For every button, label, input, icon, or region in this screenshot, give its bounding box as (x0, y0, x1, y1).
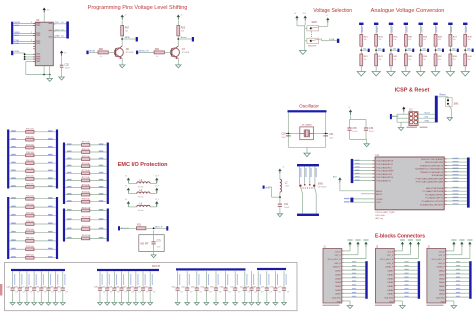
svg-text:R23: R23 (181, 28, 186, 30)
svg-text:SW3: SW3 (318, 184, 324, 186)
svg-text:VPP_U: VPP_U (387, 255, 394, 257)
svg-text:MISO: MISO (15, 32, 21, 34)
svg-text:100nF: 100nF (352, 131, 358, 133)
svg-text:3V3A: 3V3A (329, 38, 335, 41)
svg-text:1nF: 1nF (51, 292, 54, 294)
svg-text:1nF: 1nF (247, 292, 250, 294)
svg-text:AN10/CMP/DATA: AN10/CMP/DATA (426, 187, 444, 190)
svg-text:R18 10k: R18 10k (26, 152, 35, 154)
svg-text:1nF: 1nF (22, 292, 25, 294)
svg-text:R75 10k: R75 10k (26, 196, 35, 198)
svg-text:Ferrite: Ferrite (138, 186, 143, 189)
svg-text:U1: U1 (376, 153, 380, 157)
svg-text:1nF: 1nF (124, 292, 127, 294)
svg-text:GND: GND (425, 121, 430, 123)
svg-text:10k: 10k (423, 39, 426, 41)
svg-text:1nF: 1nF (269, 292, 272, 294)
svg-text:DATA1: DATA1 (387, 270, 393, 273)
svg-text:R15 10k: R15 10k (26, 129, 35, 131)
svg-text:100nF: 100nF (369, 131, 375, 133)
svg-text:5mH: 5mH (285, 186, 290, 188)
svg-text:10k: 10k (393, 59, 396, 61)
svg-text:PGD2/AN0/CN2: PGD2/AN0/CN2 (376, 173, 393, 176)
svg-text:RST: RST (15, 35, 20, 37)
svg-text:SW1: SW1 (454, 104, 460, 106)
svg-text:PGA/EX/C1/MPT/AGTS: PGA/EX/C1/MPT/AGTS (420, 164, 444, 167)
svg-text:Analogue Voltage Conversion: Analogue Voltage Conversion (371, 8, 445, 14)
svg-text:PGD1/AN2/R16: PGD1/AN2/R16 (376, 166, 392, 169)
svg-text:R70 10k: R70 10k (82, 163, 91, 165)
svg-text:GND_E: GND_E (387, 263, 394, 265)
svg-text:10k: 10k (453, 39, 456, 41)
svg-text:2: 2 (31, 22, 32, 24)
svg-text:RG0/A/LAN: RG0/A/LAN (432, 174, 444, 177)
svg-text:AN9/2: AN9/2 (376, 193, 383, 196)
svg-text:DSO+V06: DSO+V06 (376, 215, 386, 217)
svg-text:E-blocks Connectors: E-blocks Connectors (375, 234, 425, 240)
svg-text:1nF: 1nF (261, 292, 264, 294)
svg-text:GND_E: GND_E (334, 263, 341, 265)
svg-text:R74 10k: R74 10k (82, 191, 91, 193)
svg-text:DIP-SW02: DIP-SW02 (318, 187, 327, 189)
svg-text:VPP_U: VPP_U (438, 255, 445, 257)
svg-text:DATA3: DATA3 (439, 277, 445, 280)
svg-text:PGC1/AN3/VREF: PGC1/AN3/VREF (376, 170, 394, 173)
svg-text:10k: 10k (364, 39, 367, 41)
svg-text:1.8: 1.8 (61, 36, 64, 38)
svg-text:1nF: 1nF (44, 292, 47, 294)
svg-text:PC2/AN4/CMP/T2: PC2/AN4/CMP/T2 (425, 197, 444, 200)
svg-text:Reset: Reset (440, 94, 446, 97)
svg-text:PC5/AN3/SSL1/ROMT2: PC5/AN3/SSL1/ROMT2 (420, 203, 444, 206)
svg-text:DATA7: DATA7 (439, 293, 445, 296)
svg-text:DATA0_F: DATA0_F (333, 266, 342, 269)
svg-text:X3 10MHz: X3 10MHz (302, 125, 312, 127)
svg-text:1k: 1k (100, 56, 102, 58)
svg-text:C36: C36 (369, 128, 374, 130)
svg-text:DATA2: DATA2 (439, 273, 445, 276)
svg-text:R73 10k: R73 10k (82, 184, 91, 186)
svg-text:10k: 10k (438, 59, 441, 61)
svg-text:R71 10k: R71 10k (82, 170, 91, 172)
svg-text:1.8: 1.8 (61, 29, 64, 31)
svg-text:1nF: 1nF (138, 292, 141, 294)
svg-text:10k: 10k (438, 39, 441, 41)
svg-text:C31: C31 (329, 134, 334, 136)
svg-text:NO FIT: NO FIT (141, 243, 150, 246)
svg-text:ADC_IN: ADC_IN (121, 227, 129, 230)
svg-text:10k: 10k (364, 59, 367, 61)
svg-text:R22 10k: R22 10k (26, 176, 35, 178)
svg-text:1nF: 1nF (30, 292, 33, 294)
svg-text:NO FIT: NO FIT (152, 265, 161, 268)
svg-text:AN8/0: AN8/0 (376, 190, 383, 193)
svg-text:1nF: 1nF (238, 292, 241, 294)
svg-text:R17 10k: R17 10k (26, 144, 35, 146)
svg-text:1nF: 1nF (58, 292, 61, 294)
svg-text:R101 10k: R101 10k (82, 217, 92, 219)
svg-text:GND: GND (389, 301, 394, 303)
svg-text:R67: R67 (125, 28, 130, 30)
svg-text:10k: 10k (379, 39, 382, 41)
svg-text:PGB7/UA3/CAPA1/MPOA/R: PGB7/UA3/CAPA1/MPOA/R (416, 177, 444, 180)
svg-text:10k: 10k (181, 31, 184, 33)
svg-text:10k: 10k (468, 39, 471, 41)
svg-text:DATA7: DATA7 (335, 293, 341, 296)
svg-text:1nF: 1nF (146, 292, 149, 294)
svg-text:GND_E: GND_E (438, 263, 445, 265)
svg-text:MPB: MPB (125, 37, 130, 39)
svg-text:DATA6: DATA6 (335, 289, 341, 292)
svg-text:DATA1: DATA1 (335, 270, 341, 273)
svg-text:ACC+ny: ACC+ny (376, 217, 384, 220)
svg-text:PC4/AN5/SCL/PORT3: PC4/AN5/SCL/PORT3 (421, 200, 444, 203)
svg-text:MOSI: MOSI (15, 22, 21, 24)
svg-text:DATA0_F: DATA0_F (385, 266, 394, 269)
svg-text:PC1/AA2/CMP/M1: PC1/AA2/CMP/M1 (425, 193, 444, 196)
svg-text:PGD4/AN6/OC: PGD4/AN6/OC (376, 180, 391, 183)
svg-text:C41: C41 (284, 204, 289, 206)
svg-text:PG7T/UA1/CAPA1/MPOA/R: PG7T/UA1/CAPA1/MPOA/R (416, 181, 444, 184)
svg-text:1nF: 1nF (228, 292, 231, 294)
svg-text:PGC2/AN1/RP14: PGC2/AN1/RP14 (376, 176, 394, 179)
svg-text:ADC_F: ADC_F (155, 225, 163, 228)
svg-text:TMA/SDO/CAPM/AGT4: TMA/SDO/CAPM/AGT4 (420, 171, 444, 174)
svg-text:1nF: 1nF (15, 292, 18, 294)
svg-text:PB0/CF/CON/OPA0R5: PB0/CF/CON/OPA0R5 (421, 158, 444, 161)
svg-text:DATA7: DATA7 (387, 293, 393, 296)
svg-text:DATA5: DATA5 (439, 285, 445, 288)
svg-text:BC546B: BC546B (126, 52, 134, 54)
svg-text:SDA_HSD: SDA_HSD (332, 297, 342, 300)
svg-text:R77 10k: R77 10k (26, 212, 35, 214)
svg-text:SDA_HSD: SDA_HSD (436, 297, 446, 300)
svg-text:DATA5: DATA5 (335, 285, 341, 288)
svg-text:2: 2 (31, 40, 32, 42)
svg-text:10k: 10k (393, 39, 396, 41)
svg-text:R74 10k: R74 10k (26, 246, 35, 248)
svg-text:DATA4: DATA4 (387, 281, 393, 284)
svg-text:Reset: Reset (425, 112, 431, 115)
svg-text:TMS: TMS (55, 36, 60, 38)
svg-text:DATA0_F: DATA0_F (437, 266, 446, 269)
svg-text:3V3: 3V3 (303, 13, 306, 15)
svg-text:DATA6: DATA6 (387, 289, 393, 292)
svg-text:C35: C35 (352, 128, 357, 130)
svg-text:SW2: SW2 (312, 21, 318, 24)
svg-text:TDI: TDI (55, 22, 59, 24)
svg-text:1nF: 1nF (131, 292, 134, 294)
svg-text:5V0_E: 5V0_E (335, 251, 341, 253)
svg-text:10k: 10k (408, 59, 411, 61)
svg-text:5V_F: 5V_F (155, 199, 159, 201)
svg-text:PB1/OD1/MPO/R5: PB1/OD1/MPO/R5 (425, 162, 444, 164)
svg-text:PGD3/AN5/RP18: PGD3/AN5/RP18 (376, 160, 394, 163)
svg-text:1nF: 1nF (180, 292, 183, 294)
svg-text:DATA2: DATA2 (335, 273, 341, 276)
svg-text:R72 10k: R72 10k (82, 177, 91, 179)
svg-text:R21 10k: R21 10k (26, 168, 35, 170)
svg-text:1nF: 1nF (153, 292, 156, 294)
svg-text:U3: U3 (36, 18, 40, 22)
svg-text:DATA4: DATA4 (335, 281, 341, 284)
svg-text:100nF: 100nF (284, 207, 290, 209)
svg-text:R26 10k: R26 10k (26, 184, 35, 186)
svg-text:R68 10k: R68 10k (82, 149, 91, 151)
svg-text:TDO: TDO (55, 29, 60, 31)
svg-text:2: 2 (31, 32, 32, 34)
svg-text:100nF: 100nF (65, 67, 71, 69)
svg-text:DATA2: DATA2 (387, 273, 393, 276)
svg-text:VDD: VDD (265, 187, 270, 189)
svg-text:PGD: PGD (15, 40, 20, 42)
svg-text:DATA4: DATA4 (439, 281, 445, 284)
svg-text:DATA3: DATA3 (335, 277, 341, 280)
svg-text:GND: GND (440, 301, 445, 303)
svg-text:GND: GND (337, 301, 342, 303)
svg-text:R60: R60 (155, 49, 160, 51)
svg-text:1nF: 1nF (254, 292, 257, 294)
svg-text:TQ0/AN8/OC/CON/PM/AGT5: TQ0/AN8/OC/CON/PM/AGT5 (415, 168, 444, 171)
svg-text:PC1/AA2/CMP/DATA: PC1/AA2/CMP/DATA (423, 190, 444, 193)
svg-text:Ferrite: Ferrite (138, 196, 143, 199)
svg-text:R28 10k: R28 10k (26, 255, 35, 257)
svg-text:1nF: 1nF (37, 292, 40, 294)
svg-text:R66: R66 (99, 49, 104, 51)
svg-text:R16 10k: R16 10k (26, 136, 35, 138)
svg-text:R67 10k: R67 10k (82, 142, 91, 144)
svg-text:C32: C32 (65, 63, 70, 66)
svg-text:R80 10k: R80 10k (26, 238, 35, 240)
svg-text:EMC I/O Protection: EMC I/O Protection (118, 162, 168, 168)
svg-text:PGC: PGC (15, 43, 20, 45)
svg-text:R79 10k: R79 10k (26, 229, 35, 231)
svg-text:DATA1: DATA1 (439, 270, 445, 273)
svg-text:5V_F: 5V_F (155, 175, 159, 177)
svg-text:C75: C75 (157, 241, 162, 243)
svg-text:1nF: 1nF (65, 292, 68, 294)
svg-text:Programming Pins Voltage Level: Programming Pins Voltage Level Shifting (88, 5, 188, 11)
svg-text:Oscillator: Oscillator (299, 104, 319, 110)
svg-text:1nF: 1nF (287, 292, 290, 294)
svg-text:SDA_HSD: SDA_HSD (384, 297, 394, 300)
svg-text:C30: C30 (281, 134, 286, 136)
svg-text:R78 10k: R78 10k (26, 221, 35, 223)
svg-text:R76 10k: R76 10k (26, 204, 35, 206)
svg-text:R100 10k: R100 10k (82, 207, 92, 209)
svg-text:1nF: 1nF (219, 292, 222, 294)
svg-text:SCK: SCK (15, 25, 20, 27)
svg-text:R103 10k: R103 10k (82, 235, 92, 237)
svg-text:GND: GND (15, 51, 20, 53)
svg-text:10k: 10k (379, 59, 382, 61)
svg-text:IOREF: IOREF (376, 199, 383, 201)
svg-text:DATA5: DATA5 (387, 285, 393, 288)
svg-text:R102 10k: R102 10k (82, 226, 92, 228)
svg-text:10k: 10k (468, 59, 471, 61)
svg-text:SCL0_HSCL_E: SCL0_HSCL_E (432, 259, 446, 261)
svg-text:1.8: 1.8 (61, 22, 64, 24)
svg-text:5V_F: 5V_F (155, 186, 159, 188)
svg-text:DATA6: DATA6 (439, 289, 445, 292)
svg-text:1nF: 1nF (117, 292, 120, 294)
svg-text:SCL0_HSCL_E: SCL0_HSCL_E (380, 259, 394, 261)
svg-text:VPP_U: VPP_U (335, 255, 342, 257)
svg-text:R69 10k: R69 10k (82, 156, 91, 158)
svg-text:ICSP & Reset: ICSP & Reset (395, 88, 430, 94)
svg-text:Reset: Reset (181, 36, 187, 39)
svg-text:PGC3/AN4/RP17: PGC3/AN4/RP17 (376, 163, 394, 166)
svg-text:R20 10k: R20 10k (26, 160, 35, 162)
svg-text:10k: 10k (125, 31, 128, 33)
svg-text:1k: 1k (156, 56, 158, 58)
svg-text:1nF: 1nF (103, 292, 106, 294)
svg-text:R98 10k: R98 10k (82, 199, 91, 201)
svg-text:10k: 10k (453, 59, 456, 61)
svg-text:1nF: 1nF (209, 292, 212, 294)
svg-text:Voltage Selection: Voltage Selection (313, 8, 352, 14)
svg-text:BC546B: BC546B (182, 52, 190, 54)
svg-text:10k: 10k (423, 59, 426, 61)
svg-text:DATA3: DATA3 (387, 277, 393, 280)
svg-text:5V0_E: 5V0_E (388, 251, 394, 253)
svg-text:1nF: 1nF (199, 292, 202, 294)
svg-text:1nF: 1nF (110, 292, 113, 294)
svg-text:PIC24+CMP_TQFP: PIC24+CMP_TQFP (376, 212, 396, 214)
svg-text:10k: 10k (408, 39, 411, 41)
svg-text:5V0_E: 5V0_E (439, 251, 445, 253)
svg-text:SCL0_HSCL_E: SCL0_HSCL_E (328, 259, 342, 261)
svg-text:1nF: 1nF (278, 292, 281, 294)
svg-text:1nF: 1nF (190, 292, 193, 294)
svg-text:Ferrite: Ferrite (138, 209, 143, 212)
svg-text:SW-DPDT: SW-DPDT (308, 46, 317, 48)
